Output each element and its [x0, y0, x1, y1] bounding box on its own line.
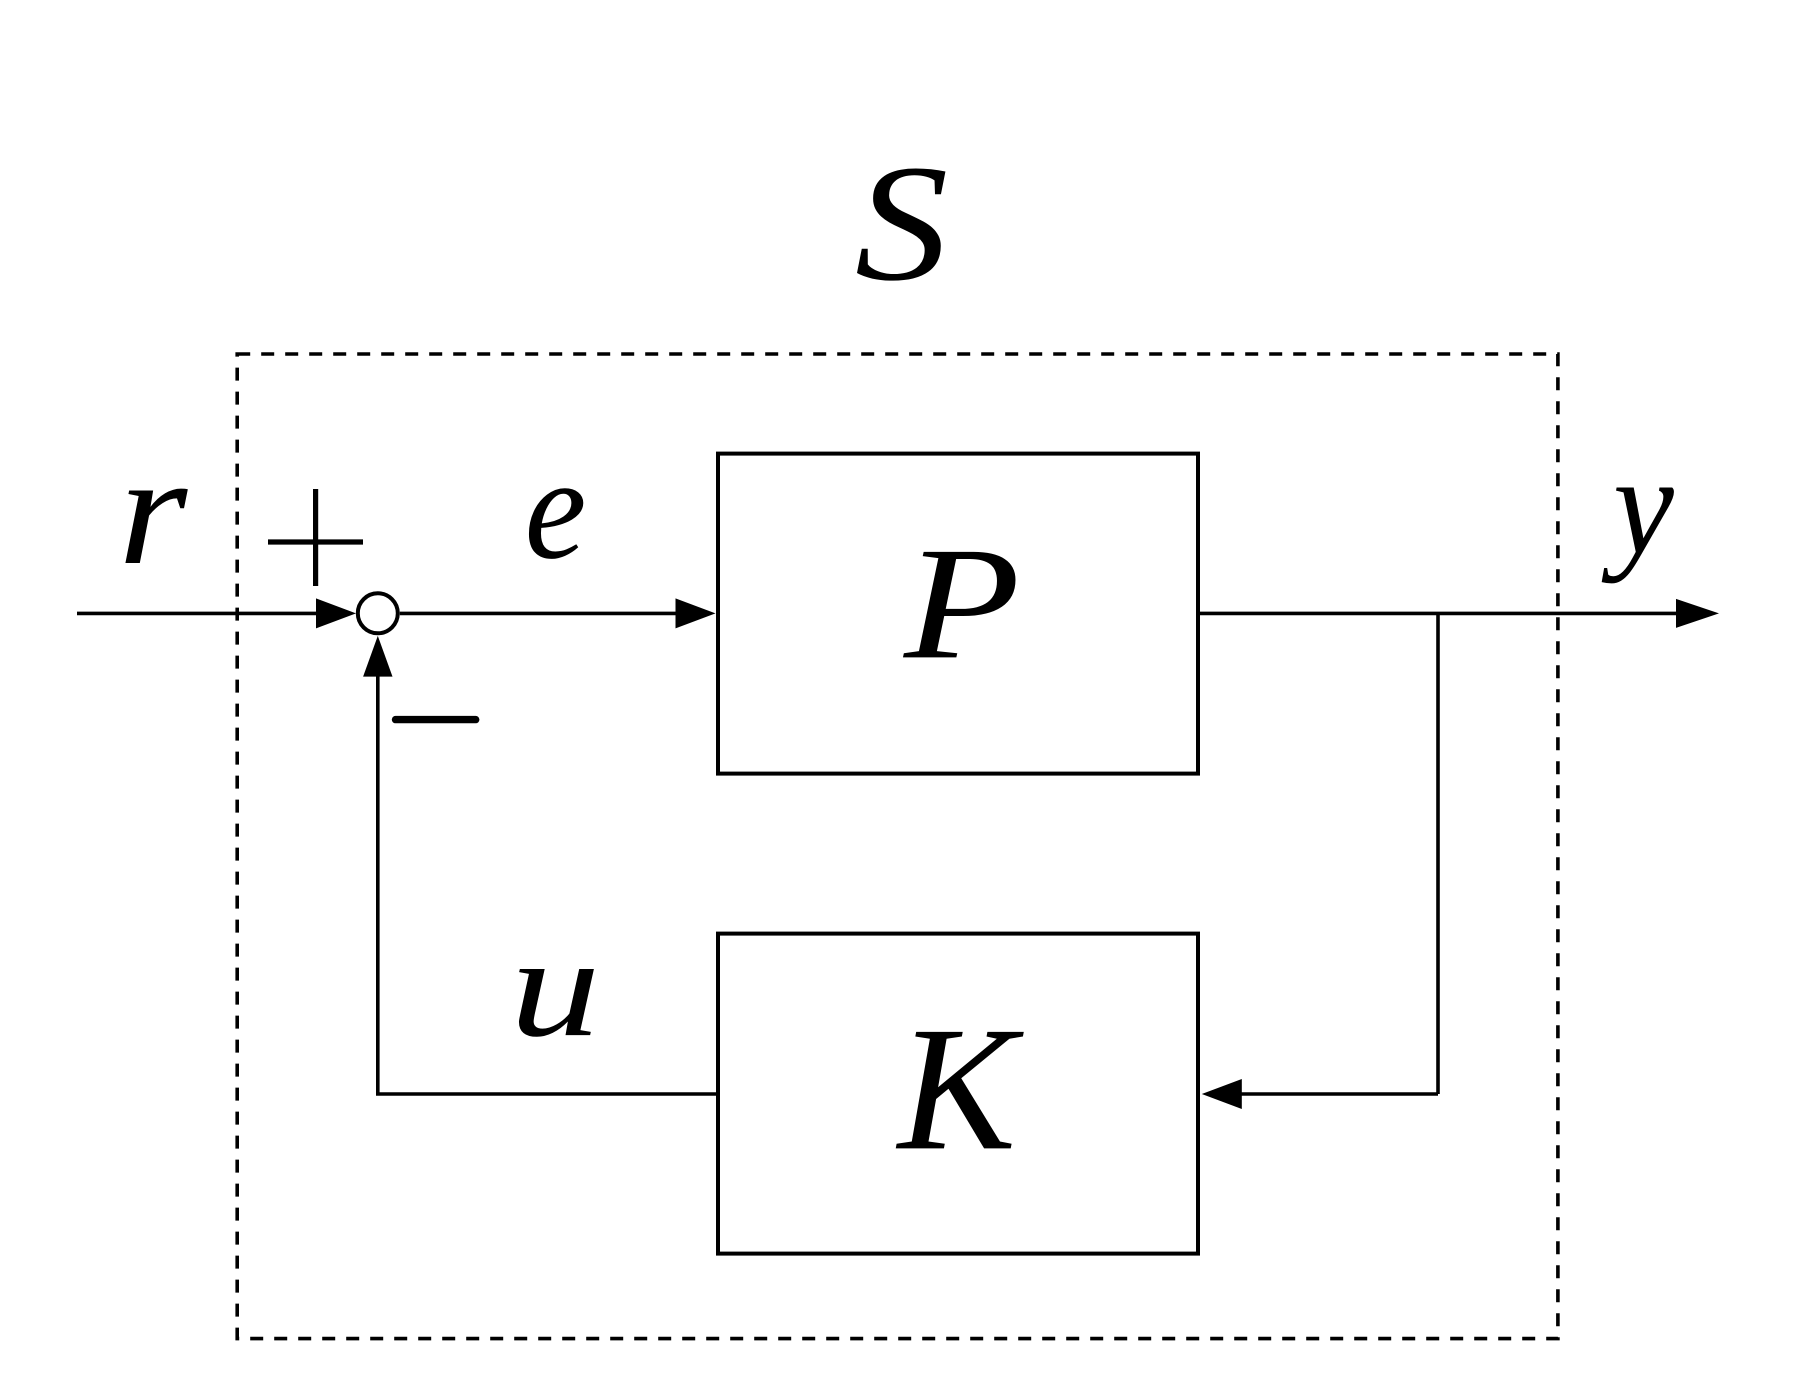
- arrowhead into summing junction: [316, 598, 356, 628]
- arrowhead up into summing junction: [363, 636, 392, 677]
- wire branch down from output node: [1436, 613, 1440, 1094]
- wire feedback into K: [1241, 1092, 1438, 1096]
- svg-text:K: K: [895, 991, 1025, 1187]
- svg-text:r: r: [118, 423, 188, 598]
- wire u from K to below summing junction: [378, 677, 717, 1095]
- plus sign at summing junction: [268, 489, 363, 586]
- svg-text:P: P: [903, 515, 1020, 693]
- block K (controller): [718, 934, 1198, 1254]
- minus sign below summing junction: [396, 716, 476, 723]
- svg-text:u: u: [510, 907, 600, 1066]
- arrowhead into K: [1202, 1079, 1242, 1109]
- system boundary S (dashed box): [237, 354, 1558, 1339]
- svg-text:e: e: [525, 427, 587, 589]
- arrowhead into P: [676, 598, 716, 628]
- arrowhead output y: [1676, 599, 1719, 628]
- block P (plant): [718, 454, 1198, 774]
- wire r input: [77, 612, 318, 616]
- wire e from summing junction to P: [400, 612, 677, 616]
- wire y output from P: [1200, 612, 1677, 616]
- svg-text:S: S: [855, 131, 949, 316]
- svg-text:y: y: [1601, 427, 1674, 584]
- summing junction circle: [358, 593, 398, 633]
